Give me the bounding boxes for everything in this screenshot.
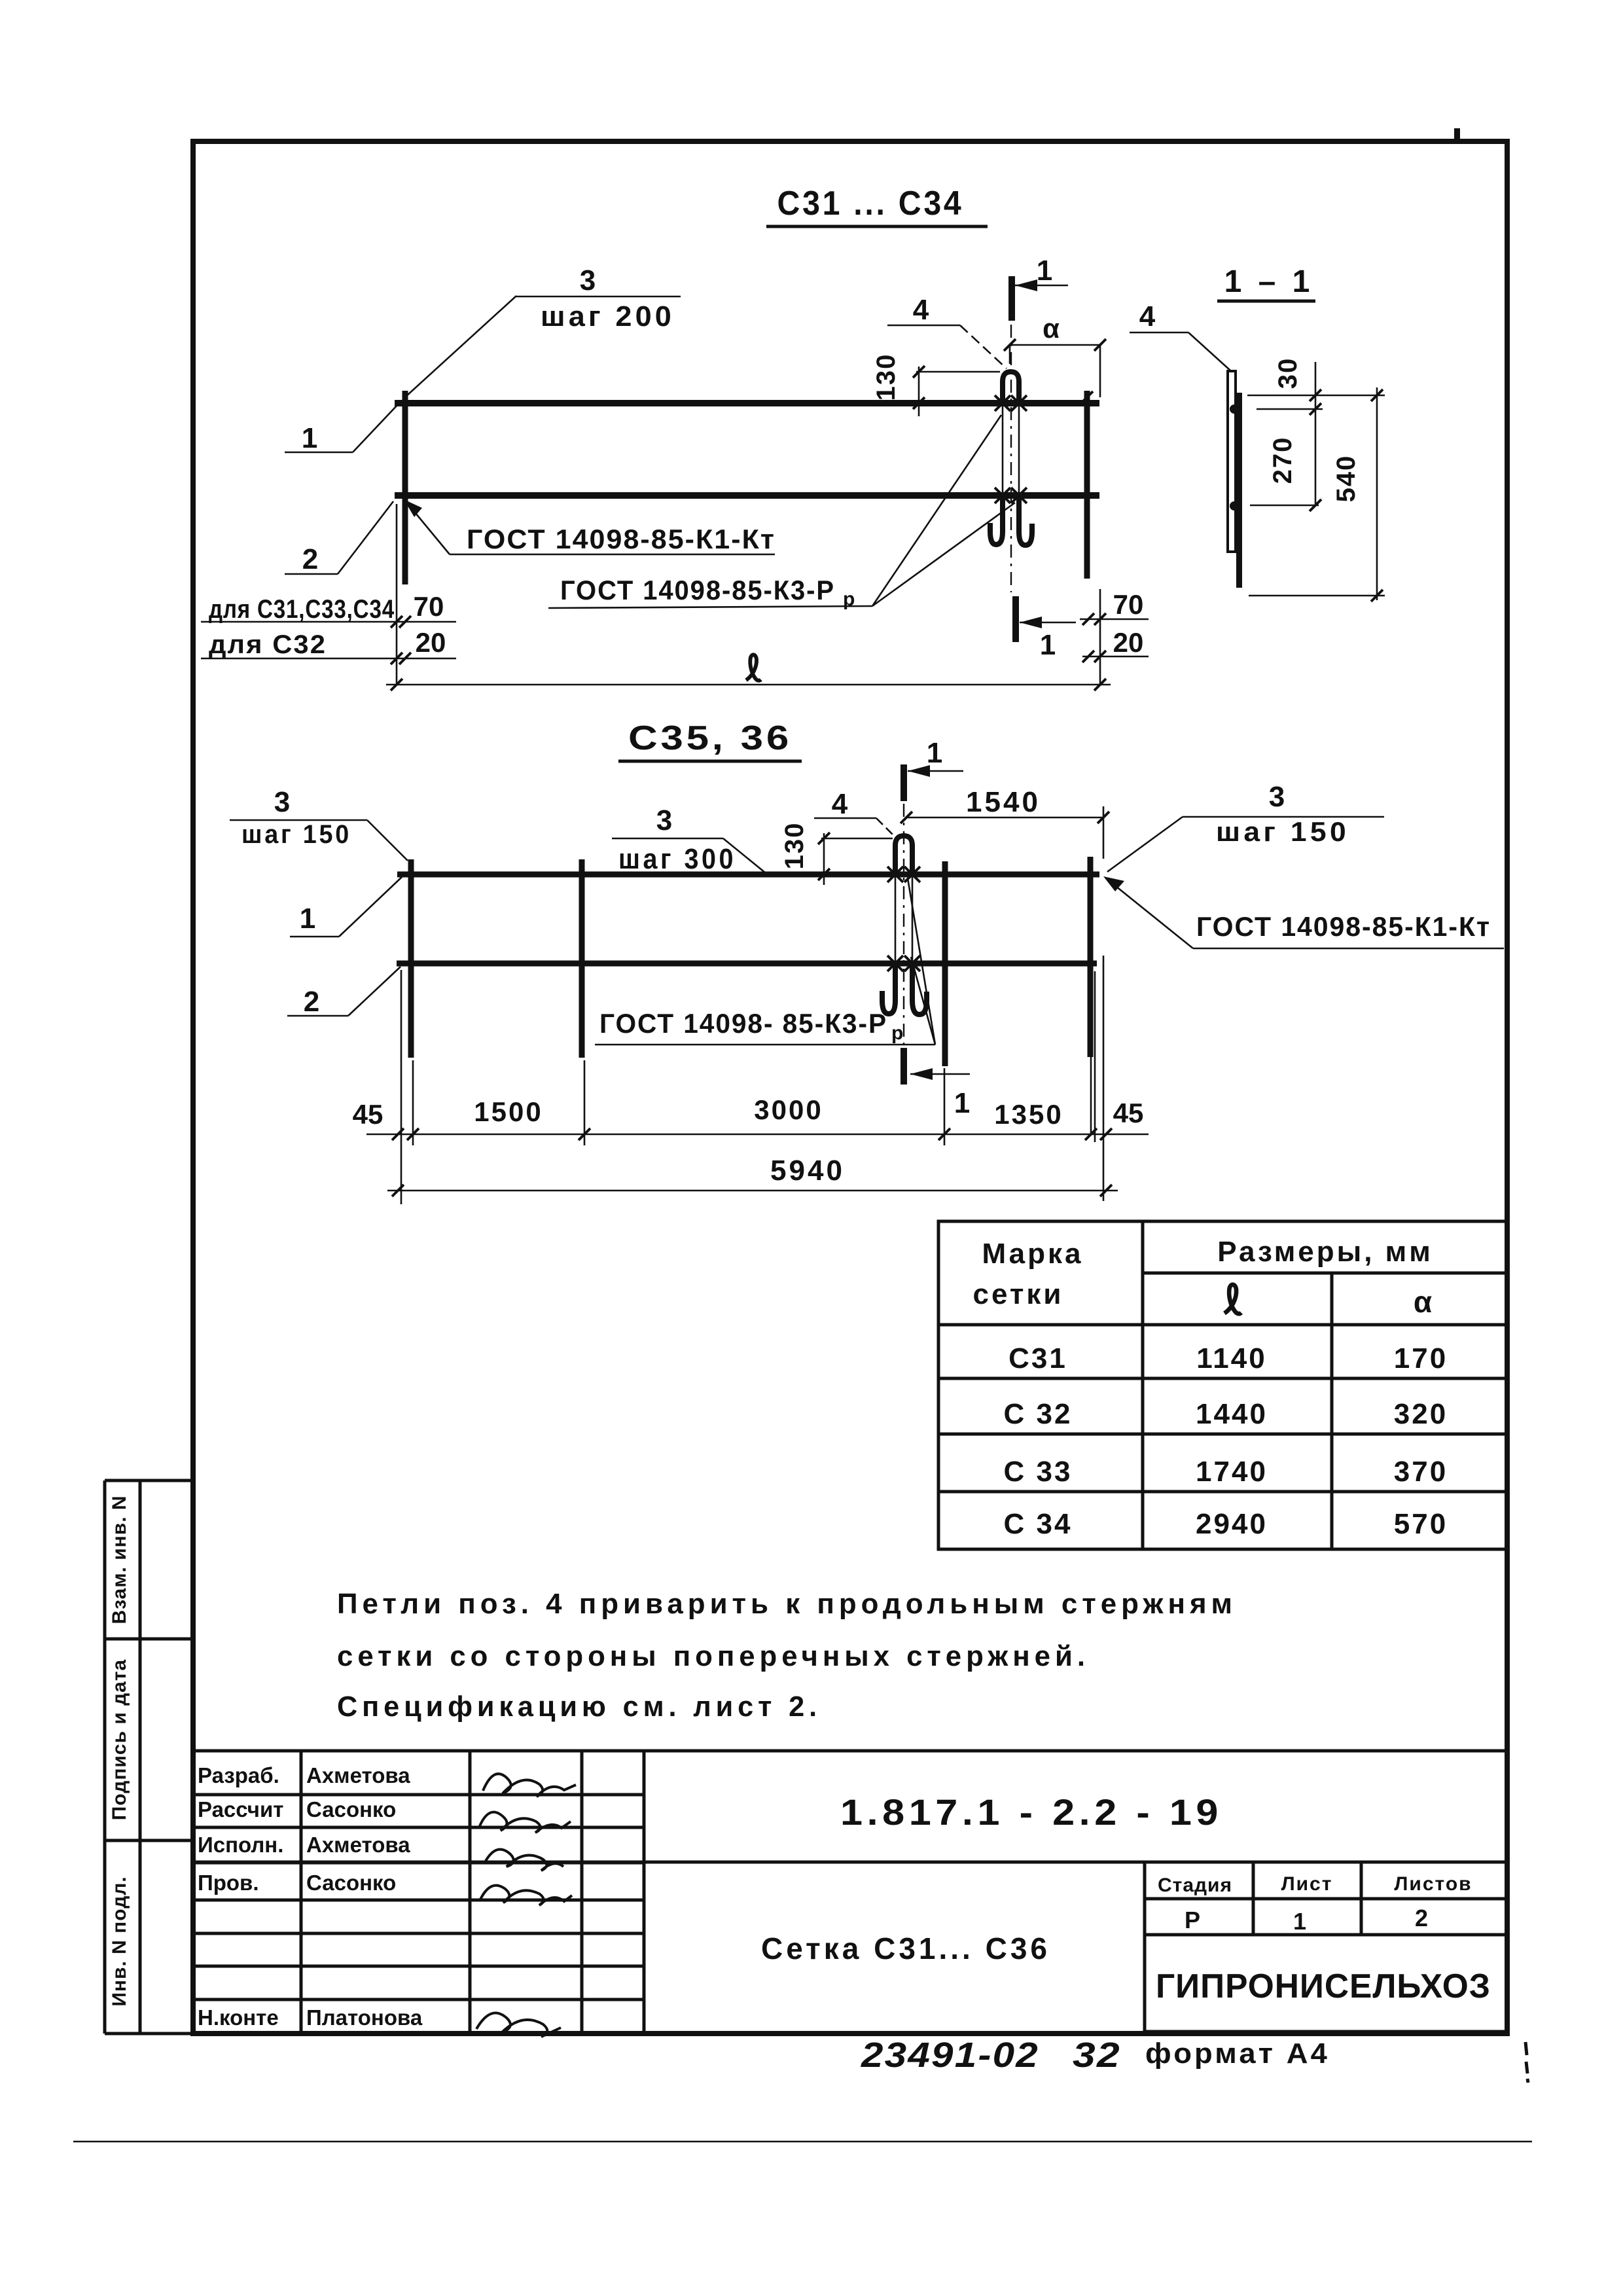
svg-text:Сасонко: Сасонко (306, 1797, 396, 1821)
svg-text:Подпись и дата: Подпись и дата (109, 1659, 130, 1820)
svg-text:1: 1 (300, 903, 315, 935)
svg-text:α: α (1414, 1285, 1432, 1319)
svg-text:270: 270 (1268, 437, 1297, 484)
svg-text:шаг 200: шаг 200 (541, 300, 675, 332)
svg-text:2: 2 (1415, 1905, 1428, 1931)
transverse bar 3 no.3 (942, 861, 948, 1066)
transverse bar 3 no.4 (1088, 857, 1094, 1057)
svg-text:1350: 1350 (994, 1099, 1063, 1130)
dimension l (overall length) (386, 684, 1111, 686)
svg-text:570: 570 (1394, 1508, 1448, 1540)
svg-text:70: 70 (1113, 589, 1144, 620)
svg-text:Пров.: Пров. (198, 1871, 259, 1895)
svg-text:Стадия: Стадия (1158, 1874, 1232, 1896)
svg-text:Взам. инв. N: Взам. инв. N (109, 1495, 130, 1624)
dim 30 vertical + ticks (1315, 362, 1317, 505)
svg-text:3: 3 (1269, 781, 1285, 813)
svg-text:Сетка С31... С36: Сетка С31... С36 (761, 1931, 1050, 1965)
dim 540 vertical (1376, 387, 1378, 600)
svg-text:70: 70 (414, 591, 444, 622)
svg-text:20: 20 (416, 627, 446, 658)
svg-text:С 32: С 32 (1004, 1398, 1073, 1430)
svg-text:С 34: С 34 (1004, 1508, 1073, 1540)
loop in side view (thin rectangle) (1228, 371, 1236, 552)
dim line bottom (540) (1249, 595, 1385, 597)
dim line top (540/30) (1247, 395, 1385, 397)
svg-text:Исполн.: Исполн. (198, 1833, 283, 1857)
longitudinal bar 1 (top) (395, 400, 1099, 406)
section mark 1 (bottom) (1012, 596, 1019, 642)
svg-text:Спецификацию см. лист 2.: Спецификацию см. лист 2. (337, 1691, 821, 1723)
page mark top right (1454, 128, 1460, 143)
organization box (1145, 1935, 1507, 2032)
svg-text:для С31,С33,С34: для С31,С33,С34 (209, 595, 395, 624)
svg-text:1 – 1: 1 – 1 (1224, 264, 1314, 299)
svg-text:Петли поз. 4 приварить к продо: Петли поз. 4 приварить к продольным стер… (337, 1588, 1237, 1620)
svg-text:формат А4: формат А4 (1145, 2037, 1330, 2070)
svg-text:1: 1 (927, 737, 942, 769)
svg-text:для С32: для С32 (209, 630, 327, 659)
svg-text:45: 45 (353, 1099, 383, 1130)
titleblock right verticals (1143, 1862, 1147, 2034)
section centreline d2 (903, 804, 904, 1045)
svg-text:ГОСТ 14098-85-К1-Кт: ГОСТ 14098-85-К1-Кт (467, 524, 776, 554)
table horizontals (1143, 1272, 1508, 1275)
longitudinal bar in section (1236, 393, 1242, 588)
svg-text:23491-02: 23491-02 (861, 2036, 1039, 2075)
svg-text:1.817.1 - 2.2 - 19: 1.817.1 - 2.2 - 19 (840, 1791, 1222, 1833)
svg-text:шаг 300: шаг 300 (618, 843, 736, 875)
loop left leg hook (990, 495, 1003, 545)
section mark bottom d2 (901, 1048, 907, 1085)
transverse bar 3 no.1 (408, 859, 414, 1058)
transverse bar 3 (left) (402, 391, 408, 584)
extension lines d2 (401, 970, 402, 1204)
signatures scribbles (476, 1774, 576, 2037)
weld marks at loop-bar crossings (995, 395, 1010, 411)
svg-text:Сасонко: Сасонко (306, 1871, 396, 1895)
loop right leg hook (1019, 495, 1032, 545)
loop left hook d2 (882, 963, 895, 1014)
svg-text:130: 130 (780, 822, 809, 870)
svg-text:130: 130 (872, 353, 901, 401)
longitudinal bar 1 (top) d2 (397, 872, 1099, 878)
svg-text:32: 32 (1073, 2036, 1121, 2075)
svg-text:45: 45 (1113, 1098, 1144, 1128)
small mark right (1525, 2042, 1528, 2083)
svg-text:2940: 2940 (1196, 1508, 1268, 1540)
svg-text:Разраб.: Разраб. (198, 1763, 279, 1787)
svg-text:ГОСТ 14098- 85-К3-Р: ГОСТ 14098- 85-К3-Р (599, 1008, 887, 1039)
transverse bar 3 (right) (1084, 391, 1090, 579)
svg-text:Марка: Марка (982, 1238, 1083, 1270)
bottom dims chain 45/1500/3000/1350/45 (366, 1134, 1149, 1136)
svg-text:Ахметова: Ахметова (306, 1763, 410, 1787)
svg-text:ГОСТ 14098-85-К1-Кт: ГОСТ 14098-85-К1-Кт (1196, 911, 1491, 942)
svg-text:1: 1 (1040, 629, 1056, 661)
weld marks d2 (887, 867, 903, 882)
svg-text:сетки со стороны поперечных ст: сетки со стороны поперечных стержней. (337, 1640, 1090, 1672)
section mark 1 (top) (1008, 276, 1015, 321)
svg-text:С 33: С 33 (1004, 1456, 1073, 1488)
svg-text:1540: 1540 (966, 786, 1041, 818)
svg-text:2: 2 (302, 543, 318, 575)
signature table grid (193, 1751, 644, 2034)
svg-text:3: 3 (656, 804, 672, 836)
svg-text:20: 20 (1113, 627, 1144, 658)
svg-text:Рассчит: Рассчит (198, 1797, 283, 1821)
svg-text:5940: 5940 (770, 1155, 845, 1187)
svg-text:Ахметова: Ахметова (306, 1833, 410, 1857)
drawing sheet frame (193, 141, 1507, 2034)
svg-text:1: 1 (954, 1087, 970, 1119)
lifting loop 4 d2 (hairpin) (895, 836, 912, 874)
svg-text:4: 4 (1139, 300, 1156, 332)
section cut centreline 1-1 (1010, 325, 1012, 592)
svg-text:1140: 1140 (1196, 1342, 1266, 1374)
svg-text:4: 4 (832, 788, 848, 820)
svg-text:Листов: Листов (1394, 1873, 1472, 1895)
svg-text:320: 320 (1394, 1398, 1448, 1430)
svg-text:3: 3 (580, 264, 596, 296)
svg-text:1: 1 (302, 422, 317, 454)
svg-text:Лист: Лист (1281, 1873, 1333, 1895)
transverse bar 3 no.2 (579, 859, 585, 1058)
dim line 30 lower (1257, 408, 1323, 410)
title block outline (193, 1751, 1507, 1862)
table verticals (1141, 1221, 1145, 1549)
svg-text:30: 30 (1274, 357, 1302, 389)
svg-text:1740: 1740 (1196, 1456, 1268, 1488)
svg-text:сетки: сетки (973, 1278, 1064, 1310)
dim line 270 lower (1250, 505, 1319, 507)
stadia grid horizontals (1145, 1897, 1507, 1901)
svg-text:С31: С31 (1008, 1342, 1067, 1374)
svg-text:Платонова: Платонова (306, 2005, 423, 2030)
svg-text:3000: 3000 (754, 1094, 823, 1125)
svg-text:ГОСТ 14098-85-К3-Р: ГОСТ 14098-85-К3-Р (560, 575, 835, 605)
svg-text:1440: 1440 (1196, 1398, 1268, 1430)
svg-text:370: 370 (1394, 1456, 1448, 1488)
svg-text:Н.конте: Н.конте (198, 2005, 279, 2030)
lifting loop 4 (hairpin) (1003, 372, 1019, 403)
svg-text:2: 2 (304, 986, 319, 1018)
svg-text:1500: 1500 (474, 1096, 543, 1127)
svg-text:Инв. N подл.: Инв. N подл. (109, 1876, 130, 2006)
bottom fold line (73, 2141, 1532, 2143)
svg-text:170: 170 (1394, 1342, 1448, 1374)
svg-text:α: α (1043, 313, 1060, 344)
longitudinal bar 2 (bottom) (395, 492, 1099, 499)
svg-text:3: 3 (274, 786, 290, 818)
svg-text:С31 ... С34: С31 ... С34 (777, 185, 964, 223)
loop right hook d2 (912, 963, 927, 1014)
svg-text:4: 4 (913, 294, 929, 326)
extension line right (1099, 589, 1101, 685)
extension line left (396, 504, 398, 685)
svg-text:р: р (891, 1022, 903, 1044)
transverse bar sections (dots) (1230, 404, 1239, 414)
svg-text:шаг 150: шаг 150 (241, 820, 351, 849)
longitudinal bar 2 (bottom) d2 (397, 961, 1097, 967)
svg-text:шаг 150: шаг 150 (1216, 816, 1349, 847)
svg-text:С35, 36: С35, 36 (628, 719, 792, 757)
svg-text:ГИПРОНИСЕЛЬХОЗ: ГИПРОНИСЕЛЬХОЗ (1156, 1967, 1491, 2005)
mesh size table frame (938, 1221, 1508, 1549)
svg-text:Р: Р (1185, 1907, 1200, 1933)
left attachment strip frame (105, 1480, 193, 2034)
dim 5940 (387, 1190, 1118, 1192)
svg-text:Размеры, мм: Размеры, мм (1217, 1236, 1433, 1268)
svg-text:540: 540 (1332, 455, 1361, 503)
svg-text:1: 1 (1293, 1908, 1306, 1935)
svg-text:1: 1 (1037, 255, 1052, 287)
section mark top d2 (901, 764, 907, 801)
